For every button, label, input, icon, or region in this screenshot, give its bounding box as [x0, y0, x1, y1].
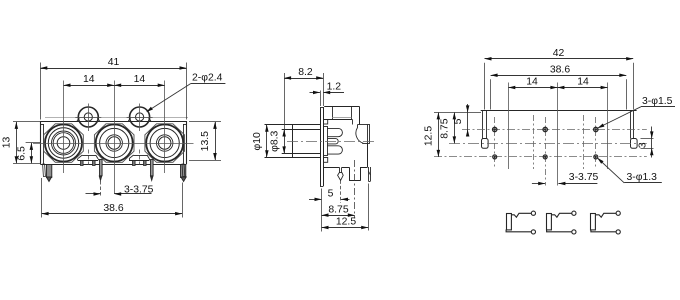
svg-text:2-φ2.4: 2-φ2.4	[192, 73, 223, 84]
side view cavity pocket	[358, 124, 370, 126]
bottom view left tab	[482, 111, 484, 139]
signal pin under J2	[100, 160, 103, 176]
jack schematic symbol 3	[591, 214, 596, 230]
side pin 1 with barb	[339, 167, 341, 172]
svg-text:41: 41	[108, 57, 120, 68]
dimension 13 body height	[13, 121, 40, 123]
svg-text:5: 5	[453, 118, 464, 124]
row centerline 8.75	[449, 143, 647, 145]
svg-text:12.5: 12.5	[424, 126, 435, 146]
left pad	[482, 139, 489, 149]
svg-text:14: 14	[83, 74, 95, 85]
svg-text:14: 14	[526, 77, 538, 88]
jack vertical centerlines	[63, 81, 65, 174]
dimension 5 pin position	[340, 180, 342, 203]
svg-text:13: 13	[1, 137, 12, 149]
svg-text:φ10: φ10	[252, 132, 263, 151]
side view contact fork	[324, 120, 328, 125]
right pad	[631, 139, 638, 149]
dimension 12.5 bottom view	[434, 112, 481, 114]
dimension 14 right pitch	[114, 85, 165, 87]
dimension 42	[484, 63, 486, 110]
dimension 14 right bottom view	[557, 87, 607, 89]
svg-text:6.5: 6.5	[16, 146, 27, 161]
row centerline 5	[462, 129, 647, 131]
svg-text:38.6: 38.6	[103, 203, 123, 214]
jack schematic symbol 2	[547, 214, 552, 230]
svg-text:12.5: 12.5	[336, 217, 356, 228]
svg-text:14: 14	[577, 77, 589, 88]
small hole column centerlines	[533, 115, 535, 169]
svg-text:13.5: 13.5	[200, 131, 211, 151]
svg-text:14: 14	[134, 74, 146, 85]
svg-text:3-φ1.3: 3-φ1.3	[627, 172, 658, 183]
svg-text:8.75: 8.75	[440, 118, 451, 138]
dimension 14 left bottom view	[508, 87, 557, 89]
svg-text:3: 3	[638, 142, 649, 148]
dimension 12.5	[368, 184, 370, 231]
jack horizontal centerline	[33, 143, 194, 145]
svg-text:5: 5	[328, 189, 334, 200]
dimension phi8.3	[284, 130, 286, 154]
side right leg	[368, 167, 370, 181]
svg-text:42: 42	[553, 48, 565, 59]
RCA jack J2 rings	[96, 125, 133, 162]
upper pin holes 3-phi1.5	[493, 127, 497, 131]
small mounting holes 2-phi2.4	[78, 107, 98, 127]
small hole boss shoulders	[77, 118, 79, 121]
left kink leg	[43, 164, 46, 177]
lower pin holes 3-phi1.3	[493, 155, 497, 159]
dimension 3-3.75 pin offset	[100, 181, 102, 197]
right mounting peg	[181, 165, 186, 178]
side pin 2 flat lug	[349, 167, 351, 181]
label 3-phi1.3 with leader	[598, 159, 624, 183]
dimension 14 left pitch	[64, 85, 115, 87]
RCA jack J3 rings	[146, 125, 183, 162]
front top centerline through small holes	[45, 117, 188, 119]
dimension 8.75 bottom view	[454, 112, 456, 143]
label 3-phi1.5 with leader	[599, 107, 641, 128]
svg-text:8.75: 8.75	[328, 204, 348, 215]
svg-text:3-φ1.5: 3-φ1.5	[642, 96, 673, 107]
pin hole column centerlines	[494, 117, 496, 167]
front view body outline	[40, 121, 186, 123]
svg-text:φ8.3: φ8.3	[269, 130, 280, 151]
side view center line	[287, 141, 377, 143]
dimension 38.6 peg span	[41, 178, 43, 218]
jack axis column centerlines	[508, 83, 510, 170]
left mounting peg	[47, 165, 52, 178]
bottom lug structure between jacks	[82, 155, 95, 157]
svg-text:1.2: 1.2	[327, 82, 342, 93]
side view body outline	[323, 119, 352, 121]
dimension 1.2 flange thickness	[320, 91, 322, 107]
jack boss octagons	[44, 124, 84, 163]
RCA jack J1 rings	[45, 125, 82, 162]
bottom view top edge	[481, 110, 637, 112]
dimension phi10	[266, 125, 268, 158]
side view flange	[320, 107, 322, 186]
signal pin under J3	[151, 160, 154, 176]
svg-text:3-3.75: 3-3.75	[569, 172, 599, 183]
dimension 38.6 bottom view	[490, 79, 492, 109]
side view barrel	[265, 124, 321, 126]
svg-text:38.6: 38.6	[550, 64, 570, 75]
svg-text:3-3.75: 3-3.75	[124, 184, 154, 195]
dimension 8.75	[354, 160, 356, 219]
side view top cap	[324, 106, 359, 108]
label 2-phi2.4 with leader	[147, 84, 190, 112]
dimension 6.5 center height	[26, 142, 41, 144]
row centerline 12.5	[434, 156, 647, 158]
dimension 41 overall width	[40, 63, 42, 120]
right kink leg	[182, 164, 185, 177]
dimension 3-3.75 bottom view	[532, 183, 545, 185]
jack schematic symbol 1	[507, 214, 512, 230]
dimension 13.5 right body height	[189, 121, 221, 123]
svg-text:8.2: 8.2	[298, 67, 313, 78]
dimension 3 pad height	[651, 127, 653, 158]
dimension 8.2	[284, 73, 286, 129]
dimension 5 bottom view	[467, 104, 469, 137]
bottom view right tab	[630, 111, 632, 139]
